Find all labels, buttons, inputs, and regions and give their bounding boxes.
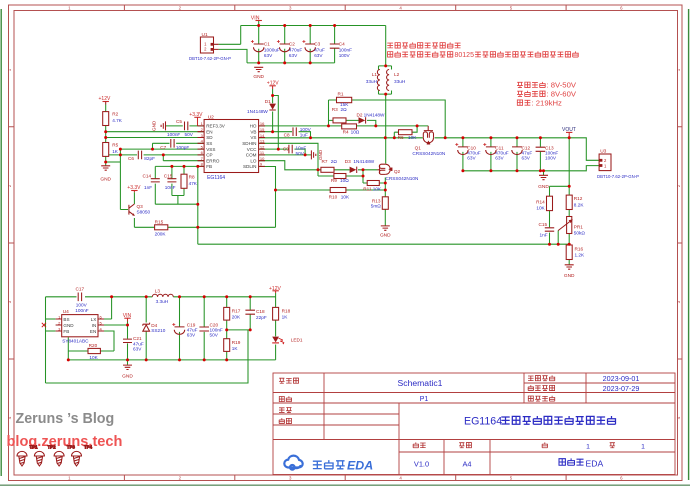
wire VIN vertical to inductors: [385, 26, 387, 66]
svg-text:: 8V-60V: : 8V-60V: [547, 90, 577, 99]
svg-text:1N4148W: 1N4148W: [364, 113, 385, 118]
svg-text:U3: U3: [600, 149, 606, 155]
svg-text:C18: C18: [256, 309, 265, 314]
wire buck top bus: [46, 296, 276, 298]
resistor R18: [273, 307, 291, 320]
svg-text:R18: R18: [282, 309, 291, 314]
svg-text:L2: L2: [394, 72, 400, 77]
bottom page edge line: [0, 484, 690, 486]
svg-text:EN: EN: [206, 129, 212, 134]
svg-text:C17: C17: [76, 286, 85, 291]
svg-text:GND: GND: [253, 74, 264, 80]
wire C3 leads: [309, 26, 311, 63]
svg-text:DBT10-7.62-2P-GN-P: DBT10-7.62-2P-GN-P: [189, 56, 231, 61]
svg-text:D3: D3: [345, 159, 351, 164]
svg-text:GND: GND: [63, 323, 74, 328]
svg-text:2023-07-29: 2023-07-29: [603, 384, 640, 393]
svg-text:D2: D2: [357, 113, 363, 118]
svg-text:63V: 63V: [314, 53, 323, 58]
resistor R11: [363, 181, 382, 192]
svg-text:GND: GND: [380, 233, 391, 239]
wire VB line C8: [259, 132, 311, 138]
cell 嘉立创EDA text: [559, 458, 584, 465]
svg-text:U4: U4: [63, 309, 69, 315]
JLC EDA logo text: [313, 459, 373, 473]
svg-text:63V: 63V: [522, 156, 531, 161]
svg-text:CRSS042N10N: CRSS042N10N: [412, 151, 445, 156]
svg-text:63V: 63V: [264, 53, 273, 58]
svg-text:100nF: 100nF: [167, 132, 180, 137]
ground R5: [100, 166, 111, 183]
right page edge green line: [688, 9, 690, 480]
svg-text:R1: R1: [338, 92, 344, 97]
IC U4 SY8401ABC: [56, 309, 104, 343]
capacitor C11: [483, 143, 508, 161]
wire Q2 source to R13: [384, 177, 386, 196]
svg-text:63V: 63V: [187, 333, 196, 338]
svg-text:COM: COM: [246, 153, 257, 158]
svg-text:R15: R15: [155, 219, 164, 224]
svg-text:80125: 80125: [455, 52, 475, 59]
junction dots inductor node: [384, 64, 387, 95]
wire +12V to D1: [272, 89, 274, 103]
svg-text:A4: A4: [462, 459, 471, 468]
svg-text:Schematic1: Schematic1: [398, 378, 443, 388]
svg-text:15: 15: [260, 127, 265, 132]
capacitor C2: [277, 40, 302, 58]
svg-text:10K: 10K: [536, 206, 545, 211]
svg-text:SS210: SS210: [151, 328, 165, 333]
wire C14 top: [154, 166, 156, 178]
svg-text:ERRO: ERRO: [206, 158, 220, 163]
svg-text:10: 10: [260, 156, 265, 161]
svg-text:C4: C4: [339, 42, 345, 47]
title block table: [273, 373, 675, 475]
wire CP line C6: [106, 154, 204, 156]
svg-text:SS: SS: [206, 141, 212, 146]
svg-text:2Ω: 2Ω: [331, 159, 338, 164]
wire +12V branch to VCC: [273, 96, 279, 150]
capacitor C15: [164, 174, 177, 190]
svg-text:20K: 20K: [232, 314, 241, 319]
svg-text:TP4: TP4: [84, 445, 93, 450]
svg-text:50V: 50V: [296, 151, 305, 156]
connector U3: [597, 149, 639, 179]
junction dots feedback divider: [548, 185, 571, 246]
resistor R5: [103, 143, 119, 157]
no-connect X on U4 GND pin: [42, 323, 46, 327]
red annotation line 1: [387, 42, 460, 48]
svg-text:2Ω: 2Ω: [341, 107, 348, 112]
svg-text:R8: R8: [189, 174, 195, 179]
wire D4 leads: [145, 297, 147, 360]
svg-text:5mΩ: 5mΩ: [371, 204, 382, 209]
svg-text:VSS: VSS: [206, 147, 215, 152]
wire BS pin: [46, 318, 56, 320]
power flag VIN: [251, 16, 262, 22]
wire C13 leads: [539, 138, 541, 171]
diode D4: [143, 323, 166, 334]
wire output caps bottom bus: [463, 166, 599, 171]
wire FB loop bottom: [46, 330, 249, 383]
svg-text:IN: IN: [92, 323, 97, 328]
svg-text:L3: L3: [155, 288, 161, 293]
svg-text:EG1164: EG1164: [464, 416, 502, 428]
svg-text:1: 1: [586, 444, 590, 451]
wire R13 to GND: [384, 209, 386, 225]
svg-text:1.2K: 1.2K: [575, 253, 586, 258]
wire C15 bottom: [549, 233, 551, 245]
svg-text:P1: P1: [420, 396, 429, 403]
resistor R2: [103, 112, 123, 126]
svg-text:LED1: LED1: [291, 338, 303, 343]
svg-text:U1: U1: [202, 32, 208, 38]
wire C15a top: [171, 166, 173, 178]
transistor Q3: [129, 204, 151, 216]
svg-text:C15: C15: [539, 222, 548, 227]
svg-text:63V: 63V: [467, 156, 476, 161]
svg-text:47K: 47K: [189, 181, 198, 186]
ground C5 rotated: [152, 120, 166, 131]
power flag VOUT: [562, 127, 576, 138]
wire R17 R19 C18 node: [227, 329, 251, 331]
resistor R16: [566, 245, 585, 260]
svg-text:TP3: TP3: [67, 445, 76, 450]
svg-text:1K: 1K: [232, 346, 239, 351]
svg-text:Q3: Q3: [137, 204, 144, 209]
svg-text:FB: FB: [63, 329, 69, 334]
svg-text:16: 16: [260, 121, 265, 126]
wire C20 leads: [203, 297, 205, 360]
capacitor C12: [512, 145, 533, 160]
svg-text:V1.0: V1.0: [414, 459, 429, 468]
svg-text:GND: GND: [564, 273, 575, 279]
svg-text:S8050: S8050: [137, 210, 151, 215]
svg-text:LO: LO: [250, 158, 257, 163]
big title EG1164 module: [464, 416, 616, 428]
wire inductor bottom bar: [379, 91, 392, 95]
svg-text:TP1: TP1: [30, 445, 39, 450]
svg-text:1N4148W: 1N4148W: [353, 159, 374, 164]
svg-text:1nF: 1nF: [144, 185, 152, 190]
wire buck GND bus: [68, 359, 275, 361]
svg-text:VB: VB: [250, 129, 256, 134]
red annotation line 2: [388, 51, 579, 59]
svg-text:CP: CP: [206, 153, 212, 158]
wire R11 row: [363, 176, 385, 183]
svg-text:100nF: 100nF: [339, 47, 352, 52]
transistor Q2: [377, 164, 418, 181]
svg-text:3.3uH: 3.3uH: [156, 299, 169, 304]
svg-text:C3: C3: [314, 42, 320, 47]
wire EN to R20: [88, 331, 114, 351]
inductor L3: [152, 288, 173, 304]
svg-text:C1: C1: [264, 42, 270, 47]
capacitor C14: [143, 174, 160, 190]
ground C21: [122, 365, 133, 380]
svg-text:R11: R11: [363, 186, 372, 191]
left page edge green line: [0, 9, 2, 476]
wire PR1 to R16 through FB node: [568, 234, 570, 246]
svg-text:47uF: 47uF: [314, 47, 325, 52]
test point TP1: [17, 445, 38, 467]
red annotation voltage block: [517, 81, 577, 108]
power flag +3.3V: [189, 112, 203, 126]
wire R6 leads: [394, 126, 417, 138]
svg-text:Zeruns ’s Blog: Zeruns ’s Blog: [16, 411, 115, 427]
svg-text:HO: HO: [250, 124, 257, 129]
wire R14 to C15: [549, 211, 551, 228]
svg-text:10nF: 10nF: [165, 185, 176, 190]
wire VSS line: [120, 148, 204, 150]
wire VS line and VOUT rail: [259, 138, 599, 161]
capacitor C19: [172, 322, 197, 337]
wire SS line C7: [153, 143, 205, 149]
resistor R3: [332, 107, 347, 123]
wire FB pin U4: [46, 330, 56, 332]
wire C2 leads: [284, 26, 286, 63]
wire R2 to R5: [105, 126, 107, 143]
svg-text:82pF: 82pF: [144, 156, 155, 161]
wire SD line: [106, 137, 204, 139]
svg-text:100nF: 100nF: [75, 308, 88, 313]
svg-text:100V: 100V: [300, 127, 312, 132]
wire R20 left to bus: [68, 337, 114, 360]
title block left labels: [279, 375, 615, 447]
svg-text:R19: R19: [232, 340, 241, 345]
wire C11 leads: [490, 138, 492, 171]
wire R1 line to Q1 drain: [329, 100, 446, 138]
resistor R15: [155, 219, 168, 236]
svg-text:VS: VS: [250, 135, 256, 140]
power flag +3.3V Q3: [127, 185, 141, 192]
capacitor C4: [330, 42, 352, 59]
wire HO gate drive line: [259, 125, 429, 127]
wire SDLIN route: [259, 167, 276, 228]
capacitor C6: [128, 151, 155, 161]
svg-text:R16: R16: [575, 246, 584, 251]
svg-text:SDLIN: SDLIN: [243, 164, 257, 169]
svg-text:R9: R9: [331, 178, 337, 183]
svg-text:U2: U2: [208, 114, 214, 120]
junction dots buck fb node: [225, 328, 252, 331]
svg-text:50kΩ: 50kΩ: [574, 231, 586, 236]
resistor R1: [337, 92, 352, 108]
wire +12V R18 LED column: [275, 293, 277, 360]
svg-text:: 8V-50V: : 8V-50V: [547, 81, 577, 90]
capacitor C10: [455, 143, 480, 161]
wire U1 pin2 to GND bus: [219, 49, 247, 63]
svg-text:200K: 200K: [155, 231, 167, 236]
inductor L2: [387, 70, 406, 91]
test point TP4: [72, 445, 93, 467]
svg-text:R20: R20: [89, 343, 98, 348]
resistor R8: [181, 174, 198, 188]
transistor Q1: [412, 126, 445, 156]
resistor R19: [224, 339, 241, 352]
svg-text:GND: GND: [100, 177, 111, 183]
diode D2: [357, 113, 386, 124]
wire R12 to PR1: [568, 210, 570, 217]
svg-text:VCC: VCC: [247, 147, 257, 152]
svg-text:REF3.3V: REF3.3V: [206, 124, 226, 129]
svg-text:EG1164: EG1164: [207, 175, 225, 181]
svg-text:13: 13: [260, 139, 265, 144]
svg-text:LX: LX: [91, 317, 97, 322]
potentiometer PR1: [558, 217, 585, 236]
wire GND stub output bus: [543, 171, 545, 175]
wire R7 D3 to Q2 gate: [334, 169, 377, 171]
junction dots R2 R5 node: [104, 130, 107, 163]
IC U2 EG1164: [198, 114, 266, 180]
wire GND stub buck: [127, 360, 129, 365]
svg-text:R17: R17: [232, 309, 241, 314]
ground output bus: [538, 175, 549, 190]
svg-text:50V: 50V: [185, 132, 194, 137]
LED LED1: [272, 337, 303, 345]
capacitor C13: [536, 145, 559, 160]
wire VIN2 flag stem: [127, 322, 129, 326]
wire R2 top: [105, 105, 107, 112]
svg-text:4.7K: 4.7K: [112, 118, 123, 123]
wire ERRO line: [163, 155, 204, 161]
resistor R20: [88, 343, 100, 360]
capacitor C17: [75, 286, 88, 313]
svg-text:FB: FB: [206, 164, 212, 169]
svg-text:: 219kHz: : 219kHz: [532, 98, 562, 107]
svg-text:EN: EN: [90, 329, 96, 334]
ground COM rotated: [311, 149, 322, 160]
svg-text:EDA: EDA: [347, 459, 373, 473]
svg-text:C14: C14: [143, 174, 152, 179]
svg-text:14: 14: [260, 133, 265, 138]
svg-text:1: 1: [641, 444, 645, 451]
wire R16 to GND: [568, 260, 570, 265]
connector U1: [189, 32, 231, 61]
wire R17 leads: [226, 297, 228, 330]
svg-text:63V: 63V: [495, 156, 504, 161]
svg-text:10K: 10K: [341, 195, 350, 200]
wire R5 to GND: [105, 156, 107, 165]
wire C4 leads: [334, 26, 336, 63]
wire Q3 collector: [133, 192, 135, 204]
junction dots supply D1 C8 C9: [271, 94, 312, 156]
capacitor C21: [123, 336, 144, 351]
wire LX riser: [104, 297, 112, 319]
svg-text:1000uF: 1000uF: [264, 47, 280, 52]
capacitor C7: [160, 139, 189, 150]
junction dots VOUT rail: [444, 136, 571, 172]
capacitor C18: [245, 309, 266, 320]
svg-text:C2: C2: [289, 42, 295, 47]
capacitor C5: [167, 119, 194, 137]
test point TP3: [54, 445, 75, 467]
wire FB line: [155, 165, 204, 167]
svg-text:1nF: 1nF: [540, 233, 548, 238]
wire C1 leads: [258, 26, 260, 63]
test point TP2: [34, 445, 56, 467]
ground input bus: [253, 67, 264, 80]
svg-text:PR1: PR1: [574, 224, 584, 229]
ground R16: [564, 265, 575, 279]
wire PR1 wiper: [557, 231, 559, 245]
wire R14 top: [550, 186, 570, 196]
svg-text:470uF: 470uF: [289, 47, 302, 52]
capacitor C15 fb: [539, 222, 555, 238]
wire inductor top bar: [379, 66, 392, 70]
svg-text:33uH: 33uH: [394, 79, 405, 84]
diode D1: [247, 99, 276, 114]
svg-text:100V: 100V: [545, 156, 557, 161]
resistor R4: [342, 124, 360, 135]
svg-text:D1: D1: [265, 99, 271, 104]
resistor R6: [398, 130, 418, 140]
diode D3: [345, 159, 375, 173]
svg-text:R2: R2: [112, 112, 118, 117]
junction dots buck gnd bus: [67, 358, 228, 361]
wire R10 row: [276, 189, 386, 191]
svg-text:C5: C5: [176, 119, 182, 124]
wire input GND bus: [247, 62, 335, 64]
svg-text:R7: R7: [322, 159, 328, 164]
svg-text:C7: C7: [160, 145, 166, 150]
wire COM to GND: [259, 154, 311, 156]
wire SW node vertical: [385, 94, 387, 164]
capacitor C3: [302, 40, 325, 58]
wire R8 top: [183, 166, 185, 174]
ground R13: [380, 226, 391, 239]
svg-text:C15: C15: [164, 174, 173, 179]
wire VCC line: [259, 149, 306, 155]
svg-text:10K: 10K: [89, 355, 98, 360]
svg-text:1K: 1K: [112, 149, 119, 154]
svg-text:CRSS042N10N: CRSS042N10N: [386, 176, 419, 181]
wire REF3.3V C5 row: [166, 125, 205, 127]
resistor R13: [371, 197, 389, 210]
svg-text:GND: GND: [122, 374, 133, 380]
wire R15 line: [134, 226, 275, 228]
capacitor C8: [284, 127, 312, 137]
JLC EDA logo cloud: [284, 456, 302, 470]
junction dots buck top bus: [110, 295, 252, 326]
power flag +12V left: [99, 96, 111, 104]
svg-text:L1: L1: [372, 72, 378, 77]
resistor R12: [566, 195, 584, 209]
svg-text:C8: C8: [284, 132, 290, 137]
resistor R9: [331, 174, 349, 183]
svg-text:C6: C6: [128, 156, 134, 161]
wire R5 gnd branch: [106, 161, 121, 163]
junction dots input bus: [257, 24, 336, 64]
svg-text:EDA: EDA: [586, 459, 604, 469]
capacitor C1: [251, 40, 280, 58]
svg-text:TP2: TP2: [48, 445, 57, 450]
wire R19 leads: [226, 330, 228, 360]
wire R9 row: [318, 170, 363, 176]
svg-text:BS: BS: [63, 317, 69, 322]
wire FB down vertical: [197, 166, 199, 244]
power flag VIN buck: [123, 313, 132, 322]
svg-text:SY8401ABC: SY8401ABC: [62, 339, 89, 344]
wire VIN flag stem: [258, 21, 260, 26]
svg-text:10Ω: 10Ω: [351, 130, 360, 135]
svg-text:10K: 10K: [408, 135, 417, 140]
svg-text:8.2K: 8.2K: [574, 202, 585, 207]
power flag +12V buck: [269, 286, 281, 293]
svg-text:GND: GND: [152, 120, 157, 131]
svg-text:R14: R14: [536, 199, 545, 204]
wire Q3 emitter: [133, 218, 135, 227]
